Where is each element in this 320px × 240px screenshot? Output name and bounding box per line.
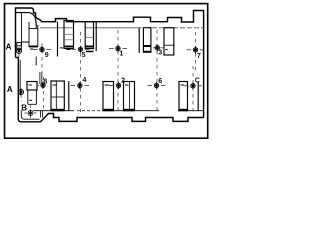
bolt C [184,84,202,88]
svg-text:8: 8 [43,78,47,85]
crosshair vertical bolt 8 [42,82,44,89]
centerline boltA top [18,54,20,60]
crosshair vertical bolt C [192,82,194,89]
upper box right of bolt 3 [164,28,174,55]
block outline top profile [16,8,204,118]
lower box left of bolt 2 [103,82,114,111]
lower box left of bolt C [179,82,188,111]
svg-text:7: 7 [197,53,201,60]
upper-left box x29-37.8 [22,22,38,49]
block bottom-left profile + rail [16,58,204,122]
centerline boltB [30,105,32,118]
inner rounded corner bottom-left [21,111,39,120]
svg-text:C: C [195,78,200,85]
lower wall x=68.8 [68,81,70,111]
crosshair vertical bolt 1 [117,45,119,52]
upper box left of bolt 5 [60,21,74,50]
short wall below left cluster [35,57,37,66]
bolt A top [16,48,21,53]
lower wall x=198.2 [197,82,199,111]
crosshair vertical bolt 2 [118,82,120,89]
centerline bolt1/2 column [117,30,119,112]
sub-deck line y=27.8 [40,27,142,29]
upper box right of bolt 5 [85,22,93,53]
centerline bolt5/4 column [80,32,82,112]
bolt B [25,100,37,116]
bolt 5 [72,47,90,51]
centerline bolt7 column [195,32,197,70]
svg-text:9: 9 [45,52,49,59]
svg-text:5: 5 [82,52,86,59]
box above bolt A top [17,43,22,50]
centerline bolt3/6 column [156,30,158,112]
svg-text:6: 6 [158,78,162,85]
crosshair vertical bolt 6 [156,82,158,89]
crosshair vertical bolt 5 [80,46,82,53]
centerline boltC column [192,66,194,112]
upper wall x=96.2 [95,22,97,51]
crosshair vertical bolt 7 [195,46,197,53]
crosshair vertical bolt 9 [41,46,43,53]
centerline boltA bottom [20,95,22,101]
bolt A bottom [18,89,23,94]
svg-text:4: 4 [83,77,87,84]
bolt 2 [109,83,121,87]
lower wall pair above bolt8 [40,72,42,84]
svg-text:A: A [7,85,13,94]
crosshair vertical bolt A top [18,47,20,54]
crosshair vertical bolt 3 [156,44,158,51]
svg-text:B: B [21,104,27,113]
inner top-left lines [16,13,37,28]
left inner vertical lower [19,60,21,95]
border frame [5,4,208,139]
small table box between A and 8 [27,82,37,105]
crosshair vertical bolt 4 [79,82,81,89]
svg-text:3: 3 [158,50,162,57]
upper wall x=139.2 [138,28,140,53]
bolt 1 [109,46,127,50]
upper wall x=57.5 [57,22,59,57]
svg-text:A: A [6,43,12,52]
bolt 3 [153,46,163,50]
lower box right of bolt 8 [51,81,64,111]
upper box left of bolt 3 [143,28,151,53]
bolt 6 [148,83,166,87]
bolt 7 [187,48,205,52]
svg-text:2: 2 [121,78,125,85]
lower box right of bolt 2 [124,82,135,111]
centerline bolt9/8 column [41,43,43,76]
crosshair vertical bolt A bottom [20,88,22,95]
bolt 8 [38,83,45,87]
svg-text:1: 1 [119,51,123,58]
bolt 4 [71,83,90,87]
rail top thin lines y=110.7 [33,110,204,112]
bolt 9 [33,47,51,51]
